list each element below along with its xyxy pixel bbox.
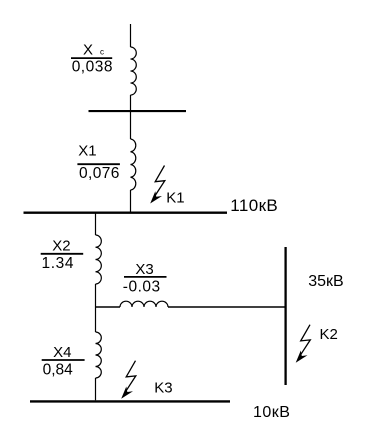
svg-text:X3: X3 bbox=[135, 261, 153, 278]
svg-text:X2: X2 bbox=[52, 237, 70, 254]
svg-text:0,84: 0,84 bbox=[43, 362, 74, 379]
svg-text:K2: K2 bbox=[320, 326, 338, 343]
svg-text:X4: X4 bbox=[53, 344, 71, 361]
svg-text:X1: X1 bbox=[78, 142, 96, 159]
svg-text:10кВ: 10кВ bbox=[253, 404, 290, 421]
svg-text:-0.03: -0.03 bbox=[123, 279, 161, 296]
svg-text:K3: K3 bbox=[154, 379, 172, 396]
svg-text:0,076: 0,076 bbox=[79, 165, 120, 182]
svg-text:110кВ: 110кВ bbox=[230, 196, 278, 215]
svg-text:c: c bbox=[100, 48, 104, 57]
svg-text:K1: K1 bbox=[166, 189, 184, 206]
svg-text:1.34: 1.34 bbox=[42, 255, 75, 272]
svg-text:X: X bbox=[83, 42, 93, 59]
svg-text:35кВ: 35кВ bbox=[308, 273, 343, 290]
svg-text:0,038: 0,038 bbox=[72, 59, 113, 76]
